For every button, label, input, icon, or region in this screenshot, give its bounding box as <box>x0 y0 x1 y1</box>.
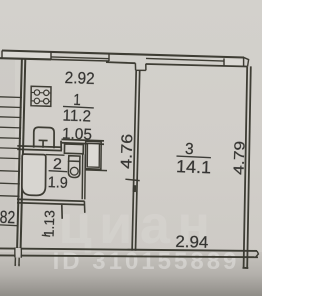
svg-text:1.05: 1.05 <box>62 125 93 143</box>
top wall outer edge <box>2 51 244 58</box>
fraction bar room 1 <box>63 106 94 108</box>
stair tread line 7 <box>0 157 20 160</box>
kitchen-bathroom wall left segment <box>17 146 62 151</box>
dimension tick near 1.13 <box>42 235 50 236</box>
top wall inner edge left (staircase + kitchen window A sill) <box>0 58 51 59</box>
line under shaft <box>85 169 107 172</box>
toilet bowl <box>68 161 79 178</box>
left wall inner line <box>21 59 26 248</box>
stove <box>31 86 51 106</box>
kitchen-bathroom wall right segment <box>62 139 105 144</box>
dimension tick on middle wall <box>125 179 139 180</box>
stove burner bottom-left <box>34 98 39 103</box>
svg-text:4.76: 4.76 <box>118 134 136 170</box>
stair tread line 3 <box>0 116 21 119</box>
left wall outer line <box>17 59 22 249</box>
pier wall inner edge <box>106 62 135 63</box>
wall stub below bathroom right corner <box>83 201 85 213</box>
stair tread line 9 <box>0 182 20 185</box>
right wall inner line <box>244 66 248 267</box>
landing line below 82 <box>0 224 18 227</box>
toilet bowl circle <box>70 167 78 175</box>
middle wall dark jamb blob <box>133 185 137 192</box>
kitchen sink faucet <box>39 140 48 148</box>
svg-text:1.13: 1.13 <box>41 210 58 238</box>
svg-text:1.9: 1.9 <box>47 174 68 192</box>
window A right cap <box>50 52 52 60</box>
svg-text:2.92: 2.92 <box>64 69 95 88</box>
bottom shadow band <box>0 252 262 296</box>
stair tread line 5 <box>0 137 21 140</box>
stair tread line 6 <box>0 147 21 150</box>
window D glass <box>225 59 243 66</box>
bottom wall bottom line <box>0 255 258 257</box>
middle wall line 2 <box>136 70 140 251</box>
bathroom right wall <box>82 154 85 199</box>
entrance door posts below wall <box>15 258 19 266</box>
svg-text:4.79: 4.79 <box>231 141 248 176</box>
stair tread line 4 <box>0 126 21 129</box>
fraction bar room 2 <box>49 171 68 172</box>
entrance door jambs in bottom wall <box>15 248 21 258</box>
window D right cap and corner bevel <box>243 57 248 66</box>
right wall outer line <box>247 66 251 267</box>
door post feet <box>15 264 20 266</box>
shelf line left of cabinet <box>46 154 65 157</box>
entrance door gap in bottom wall <box>16 248 21 257</box>
fraction bar room 3 <box>177 156 211 158</box>
bathroom bottom wall <box>17 199 85 205</box>
stove burner top-left <box>34 90 39 95</box>
svg-text:82: 82 <box>0 207 16 228</box>
staircase shading <box>0 60 15 250</box>
window B inner line <box>51 59 109 61</box>
bathroom cabinet over toilet <box>64 144 83 154</box>
window A glass <box>3 51 50 59</box>
stair tread line 8 <box>0 170 20 173</box>
kitchen sink <box>34 127 54 148</box>
pier notch to middle wall <box>135 63 146 70</box>
window B right cap <box>108 54 110 61</box>
stair tread line 2 <box>0 106 22 109</box>
stair tread line 10 <box>0 195 20 198</box>
right wall foot <box>243 267 249 269</box>
svg-text:11.2: 11.2 <box>62 108 91 126</box>
svg-text:14.1: 14.1 <box>176 156 212 177</box>
window A left cap <box>1 51 3 59</box>
ventilation shaft outer <box>85 141 101 169</box>
window C mid line <box>146 58 224 61</box>
window C inner line <box>146 64 247 67</box>
bottom wall right end bevel <box>256 251 259 257</box>
svg-text:2.94: 2.94 <box>175 233 208 252</box>
stair tread line 1 <box>0 96 22 99</box>
window C right cap <box>223 58 225 65</box>
middle wall line 1 <box>132 70 136 251</box>
bathroom door jamb open leaf <box>61 205 63 219</box>
toilet tank <box>69 156 80 162</box>
stove burner top-right <box>44 90 49 95</box>
stove burner row line top <box>31 91 51 94</box>
wall step jamb <box>60 141 62 151</box>
bottom wall top line <box>0 248 257 251</box>
ventilation shaft inner <box>87 143 99 167</box>
stove burner row line bottom <box>31 100 51 103</box>
bathtub <box>22 154 46 195</box>
window B mid line <box>51 57 109 59</box>
stove burner bottom-right <box>44 99 49 104</box>
svg-text:ID 310155889: ID 310155889 <box>53 248 240 275</box>
